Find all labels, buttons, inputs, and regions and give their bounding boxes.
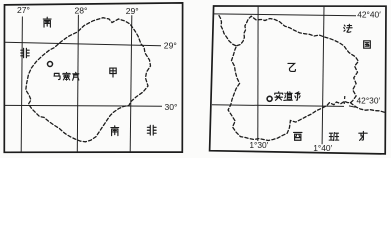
非 left <box>21 48 29 57</box>
svg-text:29°: 29° <box>164 41 177 51</box>
Lesotho dashed boundary <box>26 18 151 142</box>
border wiggle near tripoint <box>343 96 346 104</box>
svg-text:1°40′: 1°40′ <box>313 143 332 153</box>
28E meridian <box>77 15 78 152</box>
city circle Andorra la Vella <box>267 96 272 101</box>
国 <box>364 41 371 48</box>
法 <box>344 24 352 32</box>
甲 <box>110 68 116 77</box>
42d30' parallel <box>212 105 344 107</box>
1d40' meridian <box>322 6 324 144</box>
非 bottom <box>147 125 156 135</box>
France-Spain border east of Andorra <box>351 103 385 113</box>
南 top <box>43 17 51 27</box>
svg-text:29°: 29° <box>126 6 139 16</box>
西 <box>294 132 302 140</box>
svg-text:27°: 27° <box>17 5 30 15</box>
labels right graticule <box>249 10 381 154</box>
马塞卢 <box>54 73 60 79</box>
city circle Maseru <box>48 62 53 67</box>
graticule right <box>212 6 356 144</box>
Andorra dashed boundary <box>219 16 358 141</box>
安道尔 <box>275 92 283 100</box>
1d30' meridian <box>257 6 259 141</box>
29E meridian <box>130 15 132 152</box>
svg-text:1°30′: 1°30′ <box>249 140 268 150</box>
svg-text:30°: 30° <box>165 102 178 112</box>
班 <box>329 133 339 141</box>
svg-text:28°: 28° <box>75 6 88 16</box>
labels left graticule <box>17 5 178 112</box>
乙 <box>288 63 295 71</box>
graticule left <box>5 15 162 152</box>
map frame right <box>210 6 386 154</box>
南 bottom <box>111 126 119 136</box>
svg-text:42°30′: 42°30′ <box>357 96 381 106</box>
29S parallel <box>5 42 161 46</box>
牙 <box>359 131 367 140</box>
svg-text:42°40′: 42°40′ <box>357 10 381 20</box>
map frame left <box>4 3 182 152</box>
42d40' parallel <box>214 14 357 16</box>
30S parallel <box>5 104 162 107</box>
27E meridian <box>21 17 22 152</box>
